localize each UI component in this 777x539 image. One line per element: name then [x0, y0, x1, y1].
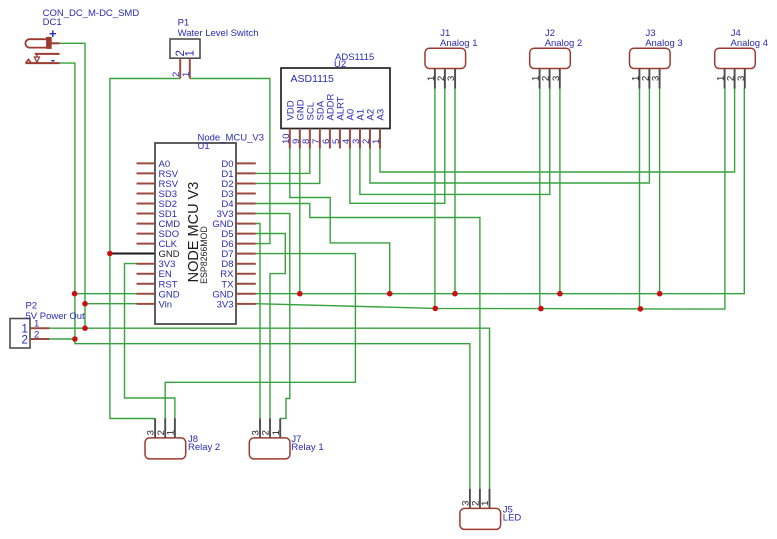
svg-text:Analog 2: Analog 2	[545, 38, 583, 49]
svg-text:2: 2	[22, 335, 28, 347]
svg-text:P2: P2	[26, 301, 38, 312]
svg-text:-: -	[51, 52, 55, 67]
wire DC- / GND vertical to J5.3	[60, 63, 470, 489]
wire GND row to J7.3	[256, 224, 260, 419]
junction dot 9	[557, 291, 563, 297]
wire DC+ to Vin/P2.1 vertical	[60, 43, 85, 328]
svg-text:ESP8266MOD: ESP8266MOD	[199, 226, 209, 284]
wire J2.3 to GND bus	[559, 89, 561, 294]
junction dot 5	[72, 336, 78, 342]
wire J1.3 to GND bus	[454, 89, 456, 294]
junction dot 2	[72, 291, 78, 297]
wire P2 pin2 to GND vertical	[49, 338, 75, 340]
svg-text:+: +	[49, 26, 57, 41]
svg-text:1: 1	[371, 139, 382, 144]
wire J4.2 to ADS A3	[380, 89, 735, 173]
wire 3V3 row to J7.1 stepped	[256, 214, 290, 419]
svg-text:3: 3	[651, 76, 662, 81]
wire J3.2 to ADS A2	[370, 89, 649, 184]
wire P2 pin1 5V to J5.1	[49, 328, 489, 489]
wire GND pin black	[110, 253, 156, 255]
junction dot 12	[538, 306, 544, 312]
wire GND bus right to J4.3	[256, 89, 745, 294]
connector J4 Analog 4	[715, 48, 756, 88]
svg-text:P1: P1	[178, 18, 190, 29]
svg-text:ASD1115: ASD1115	[291, 73, 335, 85]
op-amp U2 ADS1115 box	[281, 68, 390, 149]
wire ADS SDA to D2	[256, 149, 320, 184]
connector J5 LED	[460, 489, 501, 530]
wire J1.1 to 3V3 bus	[434, 89, 436, 309]
wire Vin from DC+	[85, 303, 137, 305]
connector P1 Water Level Switch	[170, 39, 200, 79]
junction dot 3	[82, 301, 88, 307]
connector J2 Analog 2	[530, 48, 571, 88]
wire D4 to J5.2	[256, 204, 480, 490]
connector J3 Analog 3	[630, 48, 671, 88]
junction dot 1	[107, 251, 113, 257]
svg-text:Relay 2: Relay 2	[188, 442, 220, 453]
connector DC1 barrel jack symbol	[25, 37, 59, 63]
svg-text:2: 2	[34, 329, 39, 340]
wire J1.2 to ADS A0	[350, 89, 445, 204]
svg-text:3V3: 3V3	[217, 299, 234, 310]
wire 3V3 sloped bus to J4.1	[256, 89, 725, 310]
wire P1 pin2 to GND junction and J8.3	[110, 79, 180, 419]
junction dot 6	[297, 291, 303, 297]
svg-text:Analog 1: Analog 1	[440, 38, 478, 49]
wire D5 to J7.2	[256, 234, 285, 419]
svg-text:Analog 4: Analog 4	[731, 38, 769, 49]
wire ADS SCL to D1	[256, 149, 310, 174]
junction dot 7	[387, 291, 393, 297]
svg-text:3: 3	[446, 76, 457, 81]
svg-text:3: 3	[736, 76, 747, 81]
svg-text:Analog 3: Analog 3	[645, 38, 683, 49]
IC U1 Node MCU V3 box	[137, 143, 256, 324]
svg-text:Relay 1: Relay 1	[291, 442, 323, 453]
svg-text:Water Level Switch: Water Level Switch	[178, 28, 259, 39]
svg-text:U1: U1	[198, 141, 210, 152]
connector J1 Analog 1	[425, 48, 466, 88]
svg-text:LED: LED	[503, 513, 522, 524]
svg-text:1: 1	[166, 430, 177, 435]
wire J3.3 to GND bus	[659, 89, 661, 294]
svg-text:3: 3	[551, 76, 562, 81]
junction dot 8	[452, 291, 458, 297]
wire ADS VDD to GND bus	[290, 149, 390, 294]
svg-text:U2: U2	[334, 59, 346, 70]
wire J3.1 to 3V3 bus	[639, 89, 641, 309]
wire ADS GND to GND bus	[299, 149, 301, 294]
wire D6 to P1 pin1	[190, 79, 270, 244]
svg-text:1: 1	[181, 72, 192, 77]
junction dot 4	[82, 325, 88, 331]
wire 3V3 left to J8.1	[125, 264, 175, 419]
svg-text:1: 1	[271, 430, 282, 435]
wire J2.2 to ADS A1	[360, 89, 550, 195]
wire D7 to J8.2	[165, 254, 355, 419]
svg-text:Vin: Vin	[159, 299, 173, 310]
connector J8 Relay 2	[145, 418, 186, 459]
svg-text:5V Power Out: 5V Power Out	[26, 311, 85, 322]
junction dot 11	[433, 306, 439, 312]
wire J2.1 to 3V3 bus	[539, 89, 541, 309]
svg-text:1: 1	[480, 501, 491, 506]
svg-text:DC1: DC1	[43, 17, 62, 28]
wire GND bus left	[75, 293, 137, 295]
connector P2 5V Power Out	[10, 319, 49, 349]
svg-text:A3: A3	[376, 109, 387, 121]
junction dot 10	[657, 291, 663, 297]
connector J7 Relay 1	[249, 418, 290, 459]
svg-text:1: 1	[184, 50, 196, 56]
junction dot 13	[638, 306, 644, 312]
